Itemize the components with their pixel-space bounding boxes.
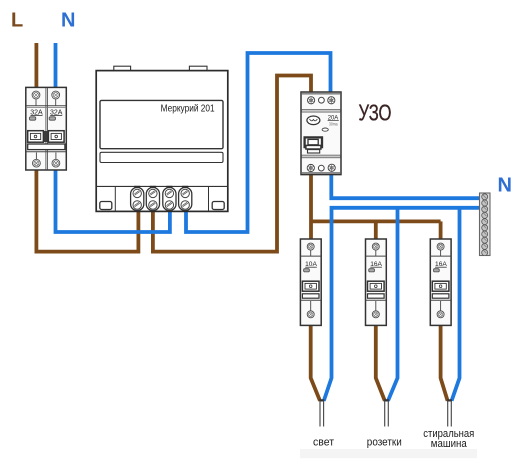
label L (phase) [11, 10, 23, 32]
wire: breaker 16A #1 out to cable 2 [376, 325, 385, 401]
wire: L drop to breaker 16A #1 [374, 221, 378, 239]
svg-text:N: N [61, 10, 75, 32]
svg-text:УЗО: УЗО [359, 100, 392, 126]
wire: N supply into QF1 [54, 43, 58, 90]
label N (top neutral) [61, 10, 75, 32]
label свет [313, 437, 334, 449]
wire: breaker 10A out to cable 1 [311, 325, 320, 401]
label розетки [367, 437, 402, 449]
wire: meter terminal 2 to RCD line in [153, 76, 311, 252]
shadow bar bottom right [300, 449, 477, 458]
wire: N drop to cable 3 [452, 208, 460, 401]
svg-text:N: N [498, 175, 512, 197]
meter terminal caps [134, 186, 188, 188]
RCD УЗО 20A 30mA [301, 92, 341, 175]
breaker SF2 16A [366, 239, 387, 325]
svg-text:розетки: розетки [367, 437, 402, 449]
svg-text:свет: свет [313, 437, 334, 449]
wire: L drop to breaker 16A #2 [439, 221, 443, 239]
meter terminal 3 [163, 188, 176, 211]
breaker QF1 32A two-pole [26, 87, 67, 170]
label стиральная машина [423, 428, 474, 450]
cable 3 sheath to стиральная машина [447, 399, 452, 426]
meter Меркурий 201 [96, 66, 228, 211]
wire: L supply into QF1 [35, 43, 39, 90]
wire: N drop to cable 2 [388, 208, 398, 401]
wire: RCD N out to N bus [331, 172, 480, 198]
svg-text:L: L [11, 10, 23, 32]
wire: meter terminal 4 to RCD neutral in [186, 53, 331, 232]
wire: RCD L out down to breaker 10A [309, 172, 313, 240]
meter terminal 1 [131, 188, 144, 211]
label N (right, neutral bus) [498, 175, 512, 197]
breaker SF1 10A [300, 239, 321, 325]
wire: breaker 16A #2 out to cable 3 [441, 325, 448, 401]
svg-text:30ma: 30ma [329, 122, 338, 127]
cable 2 sheath to розетки [384, 399, 389, 426]
label УЗО [359, 100, 392, 126]
svg-text:машина: машина [431, 438, 467, 450]
meter terminal 2 [146, 188, 159, 211]
meter terminal 4 [179, 188, 192, 211]
cable 1 sheath to свет [319, 399, 324, 426]
wire: QF1 L out to meter terminal 1 [36, 168, 138, 252]
N bus terminal strip [480, 193, 491, 256]
wire: L distribution bus to 16A breakers [311, 219, 441, 223]
breaker SF3 16A [430, 239, 451, 325]
svg-text:Меркурий 201: Меркурий 201 [161, 103, 215, 114]
wire: QF1 N out to meter terminal 3 [56, 168, 170, 232]
wire: N bus to cable 1 [324, 208, 480, 401]
